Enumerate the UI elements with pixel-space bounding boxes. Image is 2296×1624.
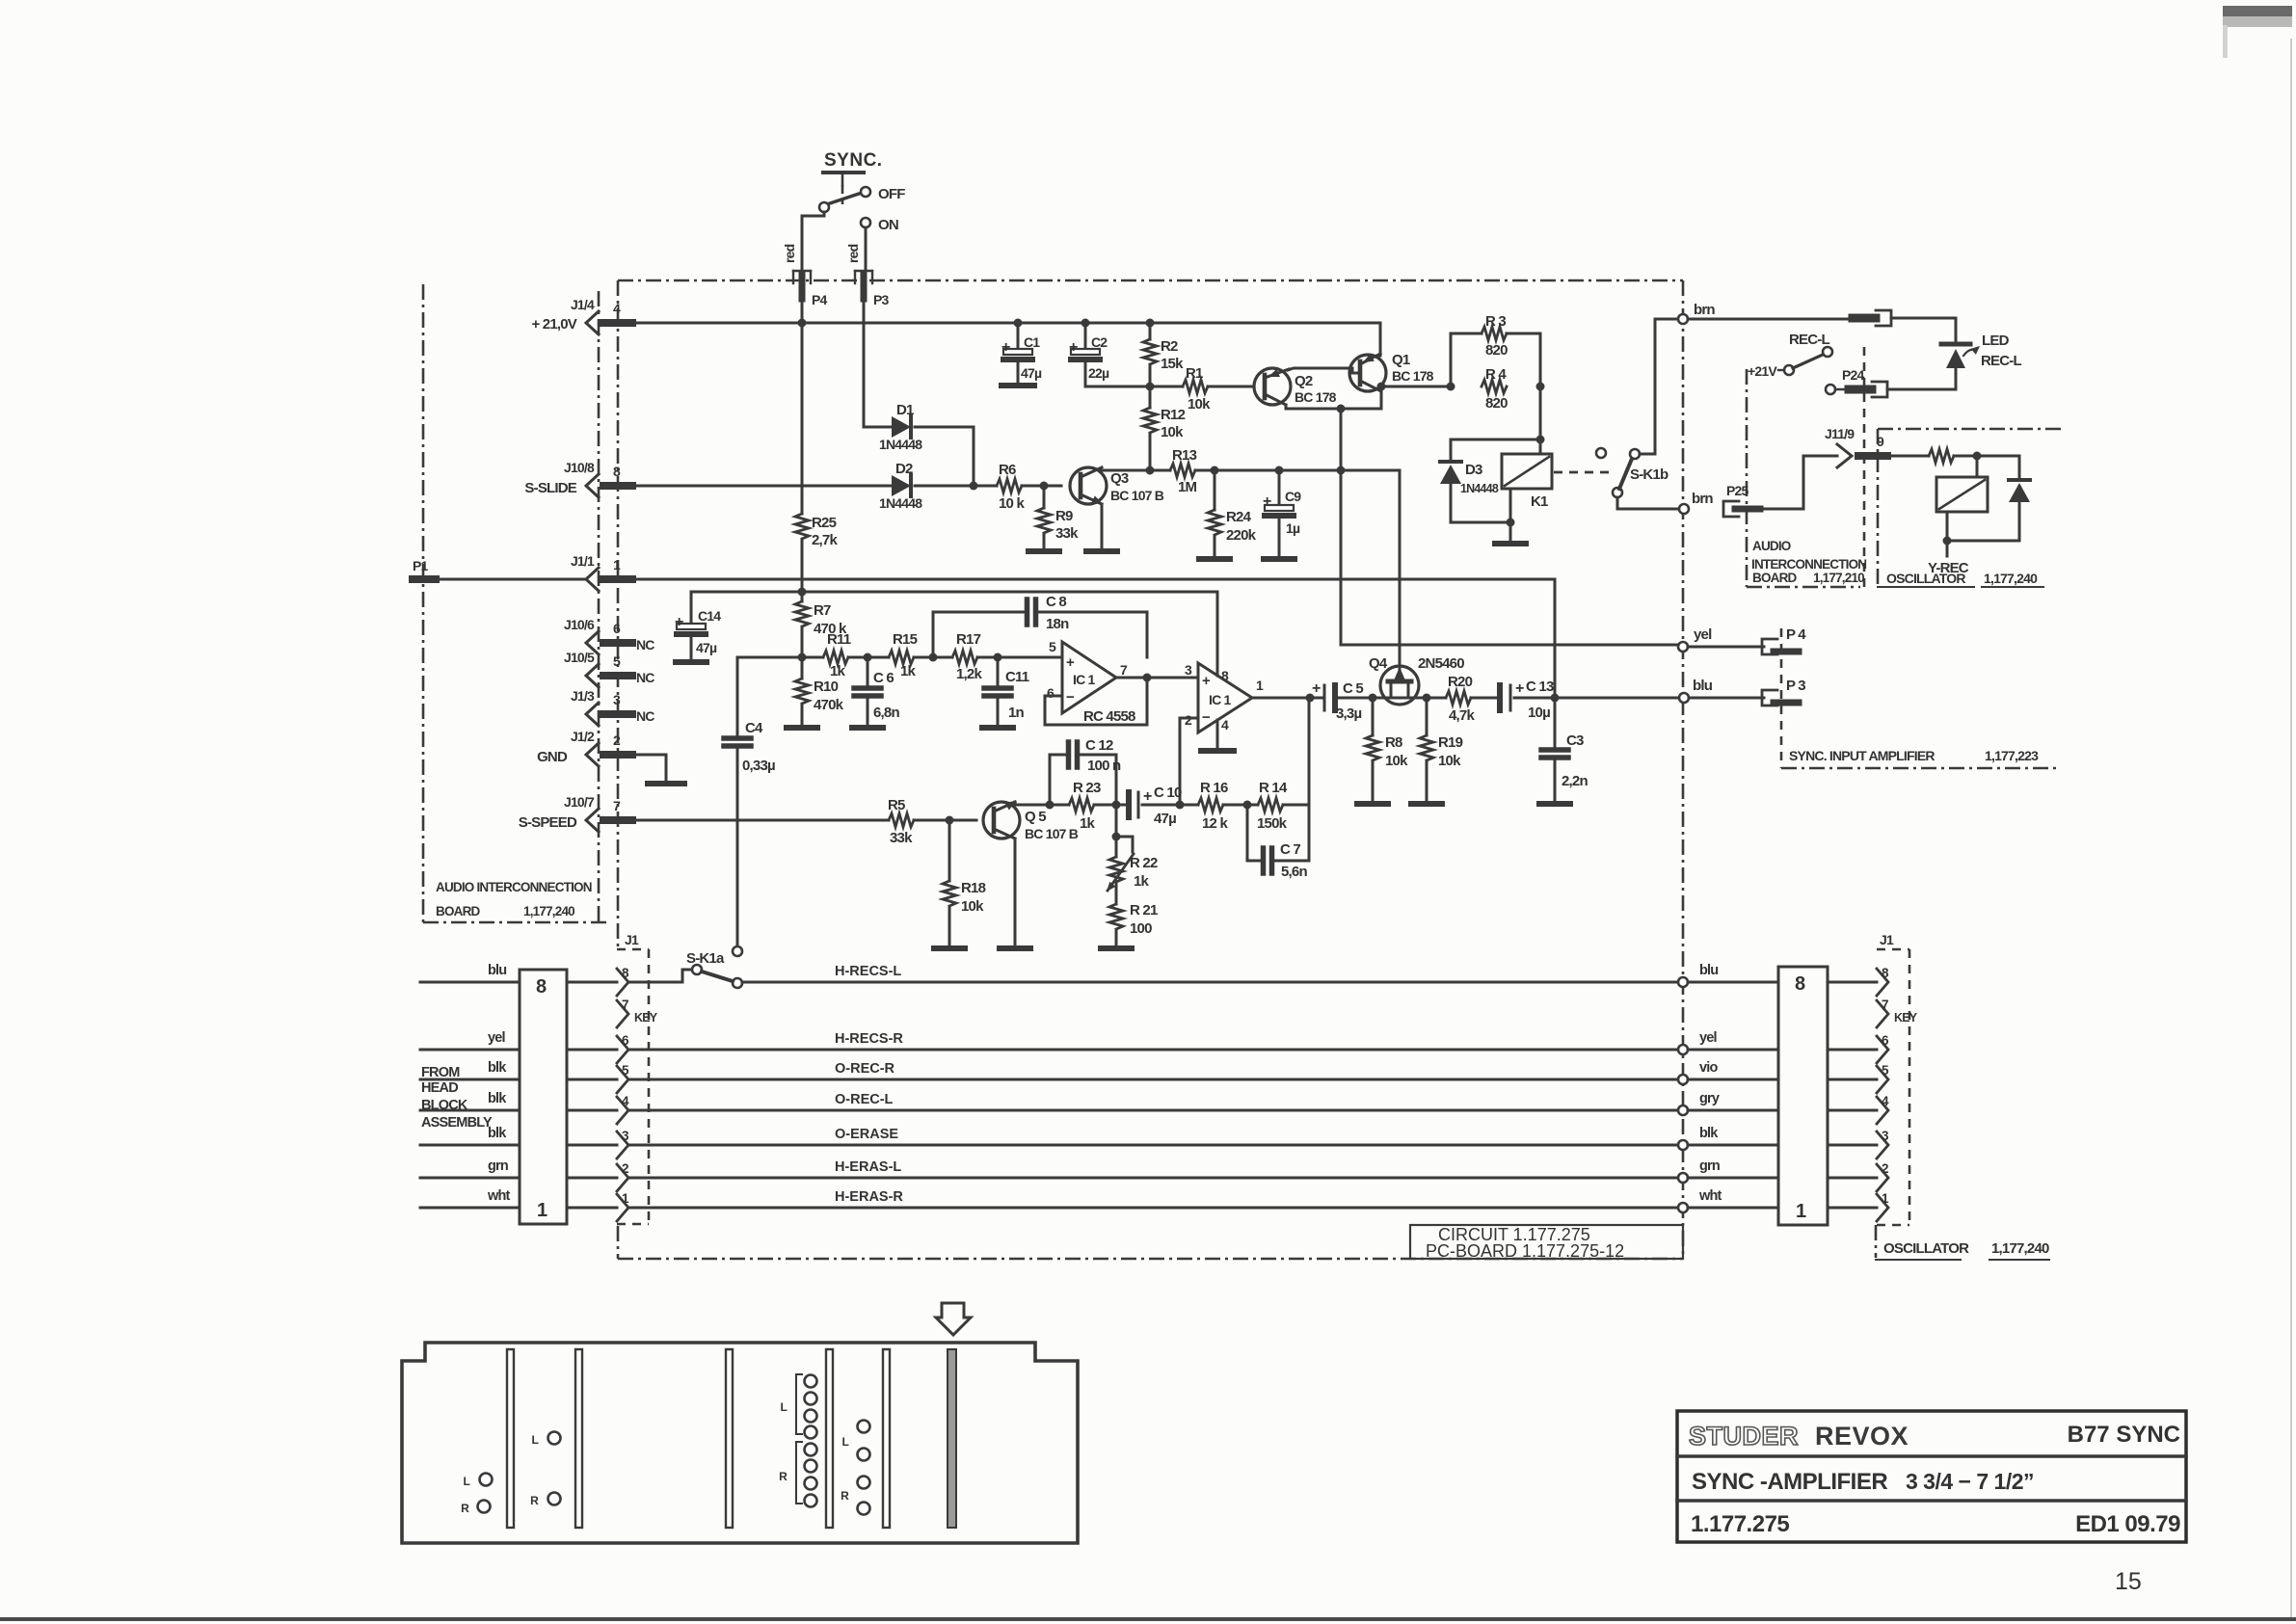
- svg-text:SYNC.: SYNC.: [824, 150, 883, 171]
- svg-text:P25: P25: [1726, 483, 1749, 498]
- svg-text:150k: 150k: [1257, 815, 1288, 832]
- capacitor C14 47u: [675, 592, 721, 662]
- resistor oscillator (unlabeled): [1929, 449, 1954, 463]
- SYNC switch mechanical link (dashed): [841, 174, 844, 204]
- svg-text:J1: J1: [1880, 932, 1894, 947]
- svg-text:1: 1: [613, 557, 621, 572]
- AUDIO INTERCONNECTION BOARD label (right): [1751, 539, 1866, 585]
- svg-text:C1: C1: [1024, 334, 1040, 350]
- connector P3 (top): [855, 271, 890, 307]
- svg-text:wht: wht: [1698, 1188, 1722, 1204]
- svg-text:10k: 10k: [1188, 396, 1211, 413]
- svg-text:blk: blk: [1699, 1126, 1719, 1141]
- switch REC-L (+21V): [1748, 332, 1832, 379]
- svg-text:R9: R9: [1055, 508, 1073, 524]
- svg-text:BOARD: BOARD: [436, 904, 481, 918]
- svg-text:33k: 33k: [890, 830, 913, 846]
- svg-text:4: 4: [613, 301, 621, 316]
- svg-text:7: 7: [1120, 662, 1128, 678]
- svg-text:−: −: [1066, 689, 1075, 706]
- wire IC1b -input to C10 node: [1180, 718, 1198, 805]
- svg-text:P4: P4: [812, 292, 828, 307]
- svg-text:blk: blk: [488, 1091, 507, 1106]
- resistor R2 15k: [1143, 323, 1184, 386]
- S-K1a upper contact from C4: [733, 946, 742, 956]
- svg-text:1N4448: 1N4448: [879, 437, 922, 452]
- svg-text:L: L: [531, 1433, 538, 1447]
- connector pin J1/1: [571, 553, 632, 591]
- svg-text:REVOX: REVOX: [1815, 1422, 1909, 1451]
- svg-text:R18: R18: [961, 880, 986, 896]
- relay Y-REC coil: [1936, 477, 1988, 512]
- signal wire O-REC-L: [628, 1092, 1679, 1110]
- relay K1 coil: [1502, 454, 1552, 510]
- svg-text:H-ERAS-L: H-ERAS-L: [835, 1159, 901, 1175]
- resistor R13 1M: [1170, 447, 1197, 495]
- svg-text:blu: blu: [1699, 963, 1718, 978]
- resistor R6 10k: [997, 462, 1025, 512]
- head cable wire blu row 8: [420, 963, 617, 982]
- svg-text:J11/9: J11/9: [1825, 426, 1855, 441]
- wire K1 to ground: [1451, 489, 1526, 544]
- svg-text:R15: R15: [893, 631, 918, 648]
- svg-text:1,177,210: 1,177,210: [1813, 571, 1864, 585]
- svg-text:1k: 1k: [900, 663, 917, 679]
- resistor R14 150k: [1257, 780, 1288, 832]
- relay K1 actuator link (dashed): [1554, 471, 1614, 474]
- node yel: [1678, 626, 1712, 652]
- connector pin J1/2 GND: [537, 729, 632, 766]
- wire S-SLIDE to D2: [632, 485, 892, 488]
- svg-text:S-K1a: S-K1a: [686, 950, 725, 967]
- wire Q3 collector to R13: [1102, 466, 1170, 475]
- svg-text:Q1: Q1: [1392, 352, 1410, 368]
- connector P25: [1723, 483, 1760, 517]
- transistor Q2 BC178: [1254, 368, 1337, 405]
- svg-text:C 10: C 10: [1154, 785, 1182, 801]
- svg-text:1k: 1k: [1134, 873, 1150, 890]
- capacitor C10 47u: [1129, 785, 1182, 827]
- connector P4 (right): [1762, 626, 1806, 654]
- wire R13 to Q4 gate line: [1195, 469, 1400, 472]
- wire resistor to diode branch: [1954, 452, 2019, 461]
- svg-text:R7: R7: [814, 602, 831, 619]
- connector boundary dash-dot (left): [598, 291, 601, 922]
- svg-text:+: +: [1143, 788, 1152, 805]
- svg-text:ASSEMBLY: ASSEMBLY: [421, 1115, 493, 1131]
- svg-text:C 7: C 7: [1280, 841, 1300, 858]
- svg-text:1: 1: [537, 1200, 547, 1221]
- wire yel from Q2 bus to P4: [1341, 644, 1679, 647]
- transistor Q3 BC107B: [1070, 467, 1164, 504]
- junction R24: [1211, 466, 1219, 475]
- svg-text:820: 820: [1485, 342, 1508, 359]
- wire IC1b pin4 to ground: [1201, 720, 1234, 751]
- svg-text:1,177,240: 1,177,240: [523, 904, 574, 918]
- diode oscillator: [1947, 456, 2030, 541]
- svg-text:J10/6: J10/6: [564, 617, 595, 632]
- svg-text:yel: yel: [1699, 1030, 1717, 1046]
- svg-text:R8: R8: [1385, 734, 1402, 751]
- wire Q2 collector bus down to yel: [1340, 409, 1343, 645]
- wire Q2 collector down to bus: [1286, 405, 1381, 409]
- svg-text:Q4: Q4: [1369, 655, 1388, 672]
- svg-text:GND: GND: [537, 749, 568, 765]
- svg-text:+: +: [1001, 339, 1010, 356]
- svg-text:15: 15: [2115, 1568, 2142, 1595]
- right box stubs: [1828, 982, 1877, 1208]
- capacitor C5 3.3u: [1312, 680, 1363, 722]
- svg-text:yel: yel: [1694, 626, 1712, 643]
- svg-text:10k: 10k: [1161, 424, 1184, 440]
- svg-text:wht: wht: [487, 1188, 511, 1204]
- wire R20 to C13: [1471, 697, 1496, 700]
- PCB board outline: [402, 1343, 1078, 1543]
- AUDIO INTERCONNECTION BOARD label (left): [436, 880, 592, 918]
- svg-text:SYNC. INPUT AMPLIFIER: SYNC. INPUT AMPLIFIER: [1789, 748, 1935, 763]
- svg-text:P 4: P 4: [1786, 626, 1806, 643]
- svg-text:47µ: 47µ: [1154, 811, 1176, 827]
- svg-text:10 k: 10 k: [999, 495, 1025, 512]
- svg-text:+: +: [1515, 680, 1524, 697]
- wire R16 to R14: [1223, 801, 1258, 810]
- svg-text:HEAD: HEAD: [421, 1080, 458, 1096]
- svg-text:L: L: [841, 1435, 848, 1449]
- svg-text:33k: 33k: [1055, 525, 1079, 542]
- svg-text:J1/1: J1/1: [571, 553, 595, 569]
- PCB slot 6 (shaded): [948, 1349, 956, 1528]
- svg-text:1k: 1k: [1080, 815, 1096, 832]
- svg-text:10k: 10k: [1385, 753, 1408, 769]
- resistor R24 220k: [1199, 470, 1257, 559]
- svg-text:blu: blu: [1693, 678, 1713, 694]
- scan shadow top-right corner: [2223, 6, 2292, 58]
- GND pin wire and ground: [632, 755, 684, 784]
- svg-text:8: 8: [536, 976, 547, 998]
- svg-text:4: 4: [1221, 717, 1229, 732]
- svg-text:blu: blu: [488, 963, 506, 978]
- svg-text:P3: P3: [873, 292, 890, 307]
- svg-text:C 5: C 5: [1343, 680, 1363, 697]
- svg-text:J10/8: J10/8: [564, 460, 595, 475]
- head cable wire yel row 7: [420, 1030, 617, 1050]
- FROM HEAD BLOCK ASSEMBLY label: [421, 1065, 493, 1131]
- wire C2/R2 to R1: [1085, 383, 1183, 391]
- wire Q5 emitter to ground: [1000, 839, 1030, 948]
- wire +21.0V rail: [632, 323, 1380, 356]
- connector pin J1/3 NC: [571, 688, 654, 726]
- wire P24 to LED cathode: [1887, 388, 1956, 391]
- svg-text:+21V: +21V: [1748, 363, 1777, 379]
- Y-REC lead and label: [1928, 541, 1969, 576]
- CIRCUIT / PC-BOARD label: [1410, 1225, 1683, 1261]
- svg-text:grn: grn: [488, 1158, 508, 1174]
- svg-text:1,2k: 1,2k: [956, 666, 982, 682]
- SYNC switch arm and contacts: [819, 186, 905, 233]
- svg-text:KEY: KEY: [1894, 1011, 1918, 1025]
- svg-text:2,2n: 2,2n: [1562, 773, 1588, 789]
- svg-text:2N5460: 2N5460: [1418, 655, 1464, 672]
- svg-text:8: 8: [1221, 668, 1229, 683]
- svg-text:R: R: [841, 1489, 849, 1503]
- svg-text:P1: P1: [413, 558, 429, 573]
- svg-text:Q2: Q2: [1295, 373, 1313, 389]
- svg-text:R: R: [530, 1494, 539, 1507]
- wire C5 to Q4 source: [1339, 697, 1391, 700]
- junction C3/P1 net: [1551, 694, 1560, 703]
- wire blu node to P3 right: [1689, 697, 1764, 700]
- wire SYNC common to P4: [802, 212, 824, 273]
- svg-text:PC-BOARD 1.177.275-12: PC-BOARD 1.177.275-12: [1426, 1241, 1624, 1261]
- svg-text:C14: C14: [698, 608, 721, 624]
- svg-text:ON: ON: [878, 217, 898, 233]
- PCB slot 2: [575, 1349, 582, 1528]
- plug connector on brn wire: [1853, 314, 1876, 323]
- head block connector (left box): [520, 970, 567, 1224]
- svg-text:R12: R12: [1161, 407, 1186, 423]
- svg-text:1,177,240: 1,177,240: [1991, 1240, 2049, 1257]
- svg-text:R 3: R 3: [1485, 313, 1506, 330]
- svg-text:gry: gry: [1699, 1091, 1720, 1106]
- capacitor C12 100n: [1050, 737, 1121, 805]
- svg-text:18n: 18n: [1046, 616, 1069, 632]
- svg-text:−: −: [1202, 709, 1211, 726]
- wire R11 to R15: [848, 653, 889, 662]
- junction R19: [1423, 694, 1431, 703]
- svg-text:D1: D1: [896, 402, 914, 418]
- wire R14 to output node: [1283, 698, 1309, 805]
- resistor R19 10k: [1411, 698, 1463, 804]
- svg-text:1M: 1M: [1178, 479, 1197, 495]
- svg-text:7: 7: [622, 998, 628, 1012]
- svg-text:D3: D3: [1465, 462, 1482, 478]
- node brn (bottom): [1679, 491, 1713, 514]
- resistor R1 10k: [1183, 365, 1211, 413]
- wire connector to LED: [1891, 318, 1956, 342]
- wire R15 to R17: [914, 653, 952, 662]
- svg-text:SYNC -AMPLIFIER: SYNC -AMPLIFIER: [1692, 1469, 1887, 1495]
- resistor R15 1k: [889, 631, 918, 679]
- oscillator connector (right box): [1778, 967, 1828, 1225]
- wire IC1a feedback pin6: [1045, 678, 1147, 725]
- resistor R5 33k: [888, 797, 914, 846]
- svg-text:100: 100: [1130, 920, 1152, 937]
- connector P3 (right): [1762, 678, 1805, 706]
- svg-text:P24: P24: [1842, 367, 1865, 383]
- svg-text:O-REC-R: O-REC-R: [835, 1061, 895, 1077]
- svg-text:J10/5: J10/5: [564, 650, 595, 665]
- svg-text:OSCILLATOR: OSCILLATOR: [1883, 1240, 1969, 1257]
- connector pin J10/6 NC: [564, 617, 654, 654]
- svg-text:REC-L: REC-L: [1789, 332, 1829, 348]
- svg-text:5: 5: [1049, 639, 1056, 654]
- AUDIO interconnection board frame (right, dash-dot): [1747, 347, 1864, 587]
- connector pin J10/7 S-SPEED: [519, 794, 632, 832]
- transistor Q5 BC107B: [983, 801, 1079, 841]
- svg-text:10µ: 10µ: [1528, 705, 1550, 721]
- wire R1 to Q2 base: [1208, 386, 1254, 388]
- PCB slot 3: [726, 1349, 733, 1528]
- resistor R8 10k: [1357, 698, 1408, 804]
- capacitor C11 1n: [982, 657, 1029, 728]
- svg-text:R 21: R 21: [1130, 902, 1158, 918]
- svg-text:yel: yel: [488, 1030, 505, 1046]
- svg-text:5: 5: [613, 653, 621, 669]
- svg-text:3 3/4 − 7 1/2”: 3 3/4 − 7 1/2”: [1906, 1469, 2034, 1494]
- svg-text:12 k: 12 k: [1202, 815, 1228, 832]
- svg-text:Y-REC: Y-REC: [1928, 560, 1969, 576]
- wire IC1b pin8 to supply rail: [1216, 592, 1219, 676]
- svg-text:C 6: C 6: [873, 670, 894, 686]
- OSCILLATOR label (top right): [1878, 571, 2043, 587]
- junction R7/R11/C4: [798, 653, 807, 662]
- svg-text:+: +: [1312, 680, 1321, 697]
- switch S-K1a: [628, 950, 742, 988]
- svg-text:6: 6: [1047, 685, 1055, 701]
- op-amp IC1 (second half): [1185, 662, 1264, 732]
- svg-text:1: 1: [1796, 1201, 1806, 1222]
- wire J11/9 to oscillator resistor: [1887, 455, 1929, 458]
- resistor R3 820: [1451, 313, 1540, 386]
- resistor R20 4.7k: [1446, 674, 1475, 724]
- svg-text:2: 2: [613, 732, 621, 748]
- wire D2 to R6 junction: [915, 485, 997, 488]
- junction C1 on rail: [1014, 319, 1023, 328]
- svg-text:5,6n: 5,6n: [1281, 864, 1307, 880]
- svg-text:IC 1: IC 1: [1209, 692, 1231, 707]
- resistor R21 100: [1101, 902, 1158, 948]
- svg-text:LED: LED: [1982, 333, 2010, 349]
- resistor R12 10k: [1143, 386, 1186, 470]
- connector pin J10/8 S-SLIDE: [524, 460, 632, 497]
- svg-text:O-REC-L: O-REC-L: [835, 1092, 894, 1107]
- capacitor C7 5.6n: [1247, 805, 1309, 880]
- svg-text:BC 107 B: BC 107 B: [1110, 488, 1164, 503]
- junction C2 on rail: [1081, 319, 1090, 328]
- svg-text:C 8: C 8: [1046, 594, 1066, 610]
- signal wire H-ERAS-R: [628, 1189, 1679, 1208]
- SYNC INPUT AMPLIFIER boundary (dashed): [1781, 628, 2058, 768]
- svg-text:C9: C9: [1285, 489, 1301, 504]
- svg-text:blk: blk: [488, 1126, 507, 1141]
- svg-text:220k: 220k: [1226, 527, 1257, 544]
- signal wire H-RECS-R: [628, 1031, 1679, 1050]
- capacitor C8 18n feedback: [933, 594, 1147, 657]
- svg-text:O-ERASE: O-ERASE: [835, 1127, 898, 1142]
- svg-text:1N4448: 1N4448: [879, 495, 922, 511]
- junction R4 left: [1447, 383, 1455, 391]
- svg-text:H-RECS-L: H-RECS-L: [835, 964, 901, 979]
- svg-text:22µ: 22µ: [1088, 365, 1109, 381]
- connector pin J1/4 +21.0V: [531, 297, 632, 334]
- svg-text:3: 3: [1185, 662, 1192, 678]
- junction C9: [1275, 466, 1284, 475]
- svg-text:NC: NC: [636, 670, 654, 685]
- svg-text:10k: 10k: [1438, 753, 1461, 769]
- svg-text:R 22: R 22: [1130, 855, 1158, 871]
- svg-text:BC 107 B: BC 107 B: [1025, 826, 1079, 841]
- svg-text:B77 SYNC: B77 SYNC: [2068, 1422, 2180, 1448]
- svg-text:3,3µ: 3,3µ: [1336, 706, 1361, 722]
- wire C10 to R16: [1142, 801, 1198, 810]
- svg-text:R 4: R 4: [1485, 366, 1507, 383]
- svg-text:470k: 470k: [814, 697, 844, 713]
- title SYNC-AMPLIFIER: [1692, 1469, 2034, 1495]
- svg-text:7: 7: [1882, 998, 1888, 1012]
- svg-text:2: 2: [622, 1161, 628, 1176]
- svg-text:R: R: [461, 1502, 469, 1515]
- svg-text:R19: R19: [1438, 734, 1463, 751]
- wire Q1 collector to R3/R4: [1377, 383, 1452, 391]
- svg-text:J1/3: J1/3: [571, 688, 595, 704]
- capacitor C6 6.8n: [852, 657, 899, 728]
- svg-text:R1: R1: [1186, 365, 1203, 382]
- FET Q4 2N5460: [1369, 470, 1464, 705]
- wire R23 to C10: [1094, 801, 1126, 810]
- right cable nodes and labels: [1678, 963, 1778, 1212]
- svg-text:red: red: [845, 244, 861, 263]
- svg-text:1,177,240: 1,177,240: [1984, 571, 2038, 586]
- node blu: [1679, 678, 1713, 703]
- svg-text:IC 1: IC 1: [1073, 672, 1095, 687]
- wire relay to Y-REC node: [1943, 512, 1952, 546]
- svg-text:P 3: P 3: [1786, 678, 1805, 694]
- svg-text:+: +: [1263, 493, 1271, 510]
- wire Q3 emitter to ground: [1086, 504, 1117, 551]
- svg-text:C11: C11: [1005, 669, 1029, 685]
- svg-text:3: 3: [613, 692, 621, 707]
- OSCILLATOR frame top (dash-dot): [1878, 429, 2063, 587]
- wire Q5 collector to R23: [1015, 801, 1069, 810]
- svg-text:brn: brn: [1692, 491, 1713, 507]
- PCB slot 1: [507, 1349, 514, 1528]
- LED REC-L: [1941, 333, 2021, 389]
- title block frame: [1677, 1411, 2186, 1542]
- svg-text:2,7k: 2,7k: [812, 532, 838, 548]
- svg-text:BC 178: BC 178: [1295, 389, 1337, 405]
- svg-text:blk: blk: [488, 1060, 507, 1076]
- capacitor C1 47u: [1001, 323, 1042, 386]
- svg-text:REC-L: REC-L: [1981, 353, 2021, 369]
- svg-text:J1/4: J1/4: [571, 297, 595, 312]
- svg-text:1µ: 1µ: [1286, 520, 1300, 536]
- svg-text:1: 1: [1256, 678, 1264, 693]
- PCB holes L/R pair 2: [530, 1432, 560, 1508]
- SYNC. INPUT AMPLIFIER label: [1789, 748, 2039, 763]
- junction D1/D2/R6: [970, 482, 978, 491]
- svg-text:OFF: OFF: [878, 186, 905, 202]
- wire S-SPEED to R5: [632, 819, 889, 822]
- scan streak right edge: [2290, 39, 2292, 1617]
- svg-text:1.177.275: 1.177.275: [1691, 1511, 1789, 1537]
- svg-text:R6: R6: [999, 462, 1016, 478]
- PCB slot 4: [826, 1349, 833, 1528]
- svg-text:6: 6: [613, 621, 621, 636]
- svg-text:INTERCONNECTION: INTERCONNECTION: [1751, 557, 1866, 572]
- resistor R25 2.7k: [795, 299, 838, 592]
- connector P1: [413, 558, 436, 579]
- wire node to C4: [737, 657, 802, 736]
- J1 connector right (dashed box): [1877, 932, 1909, 1225]
- svg-text:red: red: [782, 244, 797, 263]
- diode D3 1N4448: [1440, 439, 1540, 522]
- svg-text:C4: C4: [745, 720, 763, 736]
- resistor R10 470k: [787, 657, 844, 728]
- potentiometer R22 1k: [1107, 805, 1158, 904]
- wire Q4 to R20: [1391, 697, 1446, 700]
- switch S-K1b: [1596, 448, 1669, 497]
- svg-text:R11: R11: [827, 631, 851, 648]
